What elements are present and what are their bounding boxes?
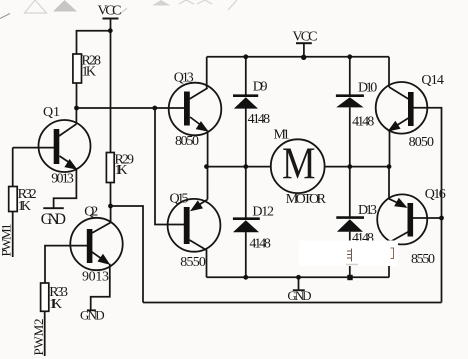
svg-text:Q15: Q15 bbox=[170, 192, 189, 207]
svg-text:Q14: Q14 bbox=[421, 73, 444, 88]
svg-text:D9: D9 bbox=[253, 79, 268, 94]
ground symbol at Q1 emitter: bar bbox=[43, 207, 64, 209]
junction motor left node bbox=[204, 164, 209, 169]
junction VCC feed node bbox=[108, 28, 113, 33]
ground symbol main rail: stub and bar bbox=[298, 277, 300, 290]
svg-text:4148: 4148 bbox=[248, 112, 271, 127]
svg-text:MOTOR: MOTOR bbox=[286, 192, 327, 207]
wire Q14 base and right drive column bbox=[412, 108, 442, 303]
junction node B: R29 / Q2 collector bbox=[108, 204, 113, 209]
transistor Q16 bbox=[377, 194, 427, 244]
wire Q1 base to R32 bbox=[13, 147, 54, 149]
junction VCC rail tap bbox=[301, 55, 306, 60]
svg-text:Q13: Q13 bbox=[174, 70, 194, 85]
svg-text:Q2: Q2 bbox=[84, 205, 98, 220]
svg-text:VCC: VCC bbox=[293, 30, 318, 45]
resistor R28 bbox=[73, 54, 82, 83]
diode D12 bbox=[233, 219, 260, 233]
junction D9/D12 at motor left bbox=[243, 164, 248, 169]
svg-text:PWM2: PWM2 bbox=[31, 319, 46, 356]
power symbol VCC right: tee bar and stub bbox=[296, 42, 312, 44]
wire D9 cathode up / anode down bbox=[245, 57, 247, 95]
wire Q15 collector down to ground rail bbox=[206, 250, 208, 278]
wire VCC to R28 top bbox=[77, 31, 111, 54]
wire D12 cathode up / anode down bbox=[245, 167, 247, 218]
wire VCC top rail bbox=[207, 56, 389, 58]
junction D10/D13 at motor right bbox=[347, 164, 352, 169]
svg-text:GND: GND bbox=[41, 211, 66, 228]
svg-text:1K: 1K bbox=[115, 163, 128, 178]
transistor Q1 bbox=[39, 120, 91, 172]
wire Q1 emitter to ground bbox=[54, 169, 77, 208]
ground symbol at Q2 emitter: bar bbox=[87, 309, 96, 311]
resistor R32 bbox=[9, 187, 18, 212]
wire D10 cathode up / anode down bbox=[349, 57, 351, 95]
svg-text:Q1: Q1 bbox=[43, 105, 60, 120]
wire node A down to Q15 base bbox=[155, 108, 184, 225]
svg-text:GND: GND bbox=[287, 288, 311, 303]
transistor Q15 bbox=[168, 199, 221, 252]
junction D12 anode on ground rail bbox=[243, 275, 248, 280]
wire Q16 collector down to ground rail bbox=[388, 242, 390, 277]
junction GND tap on ground rail bbox=[296, 275, 301, 280]
svg-text:4148: 4148 bbox=[249, 237, 271, 252]
wire D13 cathode up / anode down bbox=[349, 167, 351, 218]
junction D13 anode / Q16 collector bbox=[347, 275, 352, 280]
junction D9 cathode on VCC rail bbox=[243, 54, 248, 59]
svg-text:4148: 4148 bbox=[352, 114, 374, 129]
diode D13 bbox=[336, 218, 364, 232]
svg-text:1K: 1K bbox=[18, 199, 31, 214]
junction node A: R28 / Q1 collector bbox=[74, 106, 79, 111]
wire Q13 emitter down to motor left bbox=[207, 131, 209, 167]
wire Q2 emitter to ground bbox=[91, 264, 110, 310]
svg-text:8550: 8550 bbox=[180, 255, 206, 270]
junction D10 cathode on VCC rail bbox=[347, 54, 352, 59]
svg-text:Q16: Q16 bbox=[425, 187, 446, 202]
svg-text:M: M bbox=[282, 139, 316, 189]
wire Q13 collector to VCC rail bbox=[206, 57, 208, 88]
svg-text:D13: D13 bbox=[358, 203, 377, 218]
junction motor right node bbox=[387, 164, 392, 169]
wire R29 bottom to node B bbox=[110, 183, 112, 207]
svg-text:GND: GND bbox=[80, 307, 105, 322]
wire R33 bottom to PWM2 terminal bbox=[44, 311, 46, 356]
svg-text:1K: 1K bbox=[49, 297, 62, 312]
wire motor right node line bbox=[325, 166, 389, 168]
wire bottom drive run bbox=[143, 302, 442, 304]
svg-text:8550: 8550 bbox=[411, 252, 435, 267]
wire Q2 collector up to node B bbox=[110, 206, 112, 223]
wire Q2 base to R33 bbox=[45, 246, 88, 283]
wire R32 top bbox=[12, 148, 14, 187]
power symbol VCC left: tee bar bbox=[103, 18, 119, 20]
wire Q1 collector up to node A bbox=[75, 108, 77, 124]
motor M1 bbox=[271, 139, 325, 194]
svg-text:8050: 8050 bbox=[175, 134, 199, 149]
transistor Q14 bbox=[376, 82, 428, 134]
wire Q14 collector from VCC rail bbox=[388, 57, 390, 87]
wire Q14 emitter down to motor right bbox=[389, 130, 391, 167]
svg-text:9013: 9013 bbox=[82, 269, 109, 284]
resistor R29 bbox=[106, 153, 114, 183]
junction Q16 base on drive column bbox=[439, 216, 444, 221]
wire Q15 emitter up to motor left bbox=[207, 167, 209, 200]
svg-text:1K: 1K bbox=[82, 65, 97, 80]
wire motor left node line bbox=[207, 166, 272, 168]
white watermark cover box bbox=[299, 241, 399, 267]
transistor Q2 bbox=[70, 218, 122, 270]
svg-text:9013: 9013 bbox=[51, 172, 74, 187]
wire Q16 emitter up to motor right bbox=[388, 167, 390, 199]
diode D9 bbox=[233, 96, 258, 109]
svg-text:D10: D10 bbox=[358, 80, 377, 95]
resistor R33 bbox=[41, 283, 49, 311]
wire node A horizontal to Q13 base bbox=[77, 107, 185, 109]
junction node A to Q13/Q15 bases bbox=[152, 106, 157, 111]
svg-text:M1: M1 bbox=[274, 128, 290, 143]
svg-text:8050: 8050 bbox=[409, 135, 434, 150]
wire node B right and down to bottom run bbox=[111, 206, 144, 303]
transistor Q13 bbox=[169, 83, 222, 136]
wire R28 bottom to node A bbox=[76, 83, 78, 108]
wire ground rail bbox=[207, 276, 390, 278]
svg-text:PWM1: PWM1 bbox=[0, 224, 14, 257]
wire R32 bottom to PWM1 terminal bbox=[12, 212, 14, 258]
watermark triangles top edge bbox=[0, 0, 237, 19]
wire Q16 base to drive column bbox=[413, 217, 442, 219]
wire VCC left down to R29 bbox=[110, 19, 112, 153]
diode D10 bbox=[336, 96, 364, 108]
svg-text:D12: D12 bbox=[252, 204, 274, 219]
svg-text:VCC: VCC bbox=[98, 3, 122, 18]
